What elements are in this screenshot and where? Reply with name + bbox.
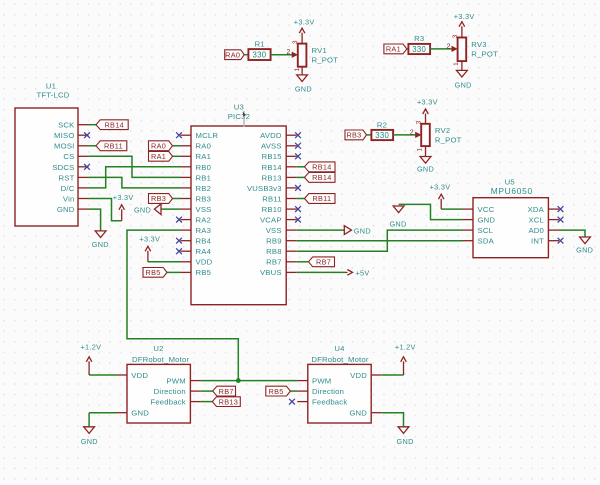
svg-text:XDA: XDA: [528, 205, 545, 214]
svg-text:SCL: SCL: [478, 226, 494, 235]
svg-text:RA0: RA0: [196, 142, 212, 151]
svg-text:VDD: VDD: [131, 371, 148, 380]
svg-text:TFT-LCD: TFT-LCD: [36, 90, 69, 99]
svg-text:2: 2: [410, 129, 414, 136]
svg-text:GND: GND: [389, 220, 406, 229]
svg-text:U4: U4: [334, 344, 345, 353]
svg-text:R2: R2: [377, 120, 387, 129]
svg-text:+1.2V: +1.2V: [81, 343, 102, 352]
svg-text:+3.3V: +3.3V: [294, 18, 315, 27]
svg-text:Vin: Vin: [63, 194, 75, 203]
svg-text:SCK: SCK: [58, 121, 75, 130]
svg-text:1: 1: [453, 62, 460, 66]
svg-text:U3: U3: [234, 103, 244, 112]
svg-text:R_POT: R_POT: [312, 55, 339, 64]
svg-text:VSS: VSS: [266, 226, 282, 235]
svg-text:RA1: RA1: [386, 45, 401, 54]
svg-text:VUSB3v3: VUSB3v3: [247, 184, 282, 193]
svg-text:RB0: RB0: [196, 163, 212, 172]
svg-text:DFRobot_Motor: DFRobot_Motor: [311, 355, 369, 364]
svg-text:GND: GND: [131, 409, 149, 418]
svg-text:RA0: RA0: [225, 50, 240, 59]
svg-text:RB7: RB7: [316, 258, 331, 267]
svg-text:RB5: RB5: [146, 268, 161, 277]
svg-text:RB15: RB15: [262, 152, 282, 161]
svg-text:VDD: VDD: [196, 258, 213, 267]
svg-text:XCL: XCL: [528, 216, 544, 225]
svg-text:INT: INT: [531, 237, 544, 246]
svg-text:MPU6050: MPU6050: [491, 186, 533, 196]
svg-text:Feedback: Feedback: [312, 398, 347, 407]
svg-text:RB3: RB3: [196, 194, 212, 203]
svg-text:RB7: RB7: [266, 258, 282, 267]
svg-text:RB11: RB11: [312, 194, 331, 203]
svg-text:+3.3V: +3.3V: [139, 235, 160, 244]
svg-text:Feedback: Feedback: [150, 398, 185, 407]
svg-text:2: 2: [446, 43, 450, 50]
svg-text:VCAP: VCAP: [260, 216, 282, 225]
svg-text:GND: GND: [417, 165, 434, 174]
svg-text:RB3: RB3: [151, 194, 166, 203]
svg-text:3: 3: [452, 34, 459, 38]
svg-text:MISO: MISO: [54, 131, 74, 140]
svg-text:+1.2V: +1.2V: [395, 343, 416, 352]
svg-text:RB4: RB4: [196, 237, 212, 246]
svg-text:SDA: SDA: [478, 237, 495, 246]
svg-text:2: 2: [286, 49, 290, 56]
svg-text:MOSI: MOSI: [54, 142, 74, 151]
svg-text:AVDD: AVDD: [260, 131, 282, 140]
svg-text:RA2: RA2: [196, 216, 212, 225]
svg-text:R_POT: R_POT: [471, 50, 498, 59]
svg-text:RB9: RB9: [266, 237, 282, 246]
svg-text:RB11: RB11: [104, 141, 123, 150]
svg-text:VSS: VSS: [196, 205, 212, 214]
svg-text:GND: GND: [81, 437, 98, 446]
svg-text:RB7: RB7: [219, 387, 234, 396]
svg-text:330: 330: [253, 50, 267, 59]
svg-text:+3.3V: +3.3V: [113, 193, 134, 202]
svg-text:GND: GND: [295, 85, 312, 94]
svg-text:RB3: RB3: [346, 131, 361, 140]
svg-text:GND: GND: [349, 409, 367, 418]
svg-text:RB11: RB11: [262, 194, 281, 203]
svg-text:1: 1: [416, 148, 423, 152]
svg-text:R_POT: R_POT: [435, 136, 462, 145]
svg-text:RB10: RB10: [262, 205, 282, 214]
svg-text:3: 3: [416, 120, 423, 124]
svg-text:DFRobot_Motor: DFRobot_Motor: [132, 355, 190, 364]
svg-text:GND: GND: [134, 205, 151, 214]
svg-text:D/C: D/C: [61, 184, 75, 193]
svg-text:Direction: Direction: [154, 387, 186, 396]
svg-text:RB14: RB14: [104, 120, 123, 129]
svg-text:RB1: RB1: [196, 173, 212, 182]
svg-text:GND: GND: [478, 216, 496, 225]
svg-text:+3.3V: +3.3V: [430, 182, 451, 191]
svg-text:330: 330: [412, 45, 426, 54]
svg-text:330: 330: [375, 131, 389, 140]
svg-text:RST: RST: [59, 173, 75, 182]
svg-text:GND: GND: [57, 205, 75, 214]
svg-text:RB8: RB8: [266, 247, 282, 256]
svg-text:RA0: RA0: [151, 141, 166, 150]
svg-text:PWM: PWM: [166, 376, 185, 385]
svg-text:MCLR: MCLR: [196, 131, 219, 140]
svg-text:RB14: RB14: [262, 163, 283, 172]
svg-text:RB5: RB5: [269, 387, 284, 396]
svg-text:GND: GND: [397, 437, 414, 446]
svg-text:U1: U1: [46, 82, 56, 91]
svg-text:RV3: RV3: [471, 40, 486, 49]
svg-text:SDCS: SDCS: [52, 163, 74, 172]
svg-text:+3.3V: +3.3V: [454, 12, 475, 21]
svg-text:Direction: Direction: [312, 387, 344, 396]
svg-text:+3.3V: +3.3V: [417, 97, 438, 106]
svg-text:RV2: RV2: [435, 126, 450, 135]
svg-text:RA4: RA4: [196, 247, 212, 256]
svg-text:AVSS: AVSS: [261, 142, 282, 151]
svg-text:+5V: +5V: [355, 269, 369, 278]
svg-text:U5: U5: [505, 177, 515, 186]
svg-text:R1: R1: [255, 40, 265, 49]
svg-text:GND: GND: [92, 240, 109, 249]
svg-text:GND: GND: [354, 226, 371, 235]
svg-text:RB14: RB14: [312, 163, 331, 172]
svg-text:VCC: VCC: [478, 205, 495, 214]
svg-text:RB13: RB13: [219, 397, 238, 406]
svg-text:U2: U2: [153, 344, 163, 353]
svg-text:VDD: VDD: [350, 371, 367, 380]
svg-text:3: 3: [292, 40, 299, 44]
svg-text:RA3: RA3: [196, 226, 212, 235]
svg-text:GND: GND: [576, 245, 593, 254]
svg-text:RB14: RB14: [312, 173, 331, 182]
svg-text:PWM: PWM: [312, 376, 331, 385]
svg-text:RB13: RB13: [262, 173, 282, 182]
svg-text:1: 1: [294, 67, 301, 71]
svg-text:RB5: RB5: [196, 268, 212, 277]
svg-text:RV1: RV1: [312, 46, 327, 55]
svg-text:R3: R3: [414, 34, 424, 43]
svg-text:RA1: RA1: [196, 152, 212, 161]
svg-text:PIC32: PIC32: [228, 112, 250, 121]
svg-text:GND: GND: [455, 80, 472, 89]
svg-text:RB2: RB2: [196, 184, 212, 193]
svg-text:VBUS: VBUS: [260, 268, 282, 277]
svg-text:CS: CS: [63, 152, 74, 161]
svg-text:RA1: RA1: [151, 152, 166, 161]
svg-text:AD0: AD0: [528, 226, 544, 235]
